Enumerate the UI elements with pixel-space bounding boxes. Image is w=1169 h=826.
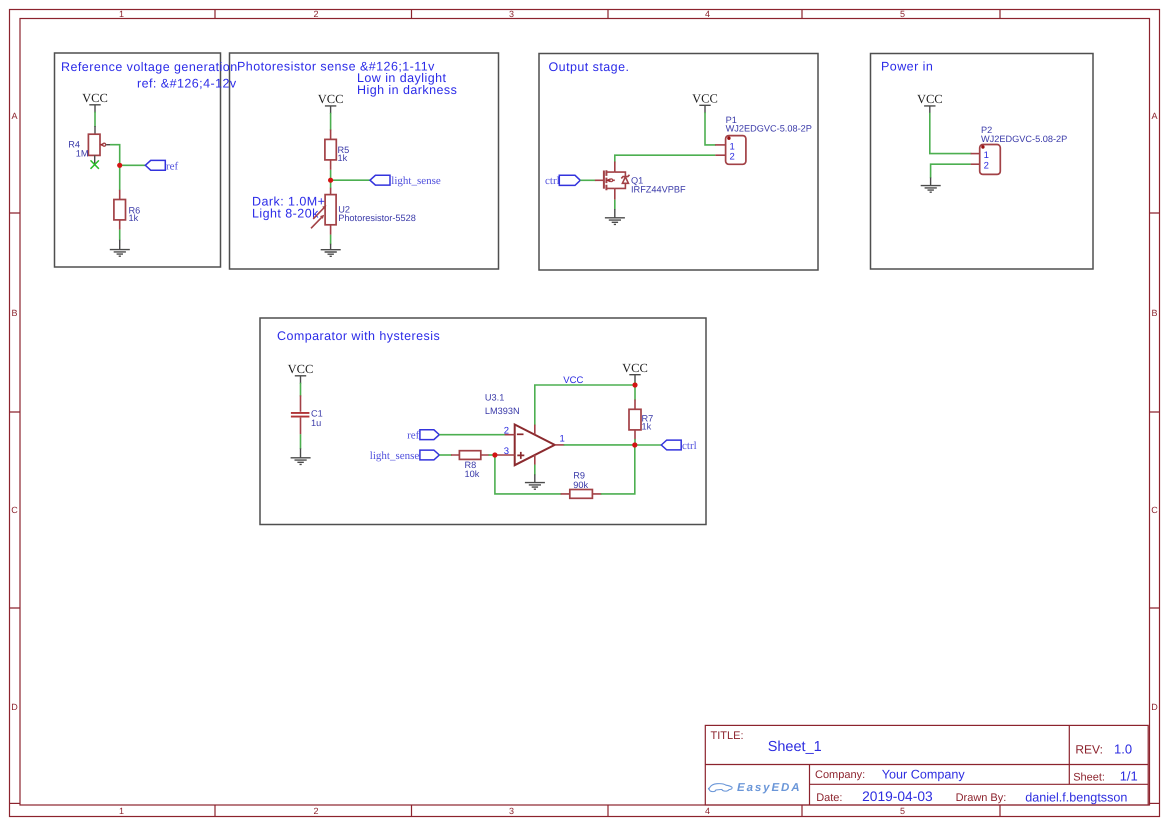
svg-text:Output stage.: Output stage.	[549, 60, 630, 74]
resistor R5	[325, 130, 336, 170]
svg-text:2: 2	[984, 161, 989, 172]
svg-text:3: 3	[504, 446, 509, 457]
wire VCC junction to R7	[634, 385, 636, 400]
power flag VCC box3	[692, 91, 718, 113]
svg-text:High in darkness: High in darkness	[357, 83, 457, 97]
svg-text:A: A	[1151, 111, 1157, 121]
svg-text:Sheet_1: Sheet_1	[768, 739, 822, 755]
svg-text:2: 2	[313, 806, 318, 816]
wire VCC to C1	[300, 383, 302, 397]
wire VCC to R5	[330, 113, 332, 131]
wire P1 pin2 to Q1 drain	[615, 155, 715, 162]
svg-text:ref: ref	[166, 160, 179, 172]
wire VCC to R4	[94, 112, 96, 127]
svg-text:EasyEDA: EasyEDA	[737, 782, 801, 794]
section box Reference voltage generation	[55, 53, 221, 267]
svg-text:Light 8-20k: Light 8-20k	[252, 206, 319, 220]
wire VCC net to op-amp power	[535, 385, 635, 425]
ground box4	[921, 178, 941, 193]
svg-text:ref: &#126;4-12v: ref: &#126;4-12v	[137, 77, 237, 91]
power flag VCC box2	[318, 92, 344, 114]
ruler row ticks left	[10, 213, 21, 608]
wire ref to op-amp pin2	[439, 434, 505, 436]
wire P2 pin2 to ground	[931, 164, 971, 178]
svg-text:TITLE:: TITLE:	[711, 730, 744, 742]
wire ctrl to Q1 gate	[580, 179, 595, 181]
svg-text:VCC: VCC	[692, 91, 718, 105]
net port ref box5	[407, 430, 439, 442]
svg-text:ctrl: ctrl	[545, 175, 560, 187]
resistor R6	[114, 190, 126, 230]
wire R5 to junction	[330, 170, 332, 180]
power flag VCC box5 right	[622, 361, 648, 383]
junction node light_sense	[328, 178, 333, 183]
svg-text:1/1: 1/1	[1120, 768, 1138, 783]
connector P2	[980, 145, 1001, 175]
svg-text:LM393N: LM393N	[485, 406, 520, 416]
section box Power in	[871, 54, 1094, 270]
svg-text:C: C	[1151, 505, 1158, 515]
pin P2-1	[971, 153, 980, 155]
junction node ref divider	[117, 163, 122, 168]
svg-text:C: C	[11, 505, 18, 515]
ground box1	[110, 240, 130, 256]
junction node op-amp pin3	[492, 452, 497, 457]
svg-text:1: 1	[984, 150, 989, 161]
ruler row ticks right	[1150, 213, 1160, 608]
section box Photoresistor sense	[230, 53, 499, 269]
svg-text:Company:: Company:	[815, 769, 865, 781]
svg-text:ctrl: ctrl	[682, 440, 697, 452]
EasyEDA logo	[708, 782, 801, 794]
wire R9 to output node	[601, 445, 635, 494]
pin R4 top	[94, 126, 96, 134]
potentiometer R4	[88, 134, 110, 155]
svg-text:B: B	[11, 308, 17, 318]
wire junction to ref port	[120, 164, 146, 166]
wire U2 to ground	[330, 235, 332, 245]
svg-text:3: 3	[509, 9, 514, 19]
resistor R9	[561, 490, 602, 499]
svg-text:4: 4	[705, 9, 710, 19]
svg-text:VCC: VCC	[288, 362, 314, 376]
resistor R7	[629, 400, 641, 440]
photoresistor U2	[311, 188, 336, 235]
ground box2	[321, 244, 341, 256]
svg-text:A: A	[11, 111, 17, 121]
svg-text:D: D	[11, 702, 18, 712]
junction node VCC net	[632, 382, 637, 387]
pin op-amp V-	[534, 455, 536, 465]
ruler band end notch bottom-right	[1150, 802, 1160, 804]
svg-text:VCC: VCC	[563, 375, 583, 386]
title block row divider 2	[810, 783, 1149, 785]
svg-text:1M: 1M	[76, 149, 89, 159]
svg-text:light_sense: light_sense	[391, 175, 441, 187]
ruler column ticks bottom	[215, 805, 1000, 817]
power flag VCC box5 left	[288, 362, 314, 384]
svg-text:1k: 1k	[642, 422, 652, 432]
pin op-amp 2	[505, 434, 515, 436]
net port light_sense	[370, 175, 441, 187]
junction node output	[632, 442, 637, 447]
svg-text:Date:: Date:	[816, 792, 842, 804]
svg-text:light_sense: light_sense	[370, 450, 420, 462]
wire output to junction	[564, 444, 635, 446]
title block rev column divider	[1068, 725, 1070, 784]
title block row divider 1	[705, 764, 1148, 766]
svg-text:U3.1: U3.1	[485, 392, 504, 402]
svg-text:VCC: VCC	[82, 91, 108, 105]
wire R7 to output junction	[634, 439, 636, 445]
svg-text:1: 1	[560, 433, 565, 444]
svg-text:WJ2EDGVC-5.08-2P: WJ2EDGVC-5.08-2P	[981, 134, 1067, 144]
svg-text:5: 5	[900, 9, 905, 19]
svg-text:10k: 10k	[465, 469, 480, 479]
svg-text:5: 5	[900, 806, 905, 816]
svg-text:2019-04-03: 2019-04-03	[862, 789, 933, 804]
wire C1 to ground	[300, 434, 302, 449]
net port ctrl box3	[545, 175, 580, 187]
svg-text:VCC: VCC	[917, 92, 943, 106]
wire VCC to P2 pin1	[930, 113, 972, 154]
wire junction to U2	[330, 180, 332, 188]
no-connect X on R4 bottom	[91, 160, 99, 168]
pin P2-2	[971, 163, 980, 165]
net port light_sense box5	[370, 450, 440, 462]
transistor Q1	[595, 162, 630, 200]
wire VCC down to junction	[634, 382, 636, 385]
wire op-amp to ground	[534, 465, 536, 476]
svg-text:1.0: 1.0	[1114, 741, 1132, 756]
svg-text:Sheet:: Sheet:	[1073, 771, 1105, 783]
svg-text:2: 2	[730, 152, 735, 163]
svg-text:1k: 1k	[129, 213, 139, 223]
svg-text:IRFZ44VPBF: IRFZ44VPBF	[631, 185, 686, 195]
title block logo cell divider	[809, 765, 811, 806]
svg-text:1u: 1u	[311, 418, 321, 428]
svg-text:2: 2	[504, 425, 509, 436]
svg-text:D: D	[1151, 702, 1158, 712]
resistor R8	[451, 451, 490, 460]
svg-text:WJ2EDGVC-5.08-2P: WJ2EDGVC-5.08-2P	[726, 124, 812, 134]
svg-text:Your Company: Your Company	[882, 767, 966, 781]
pin P1-1	[715, 144, 725, 146]
svg-text:1: 1	[119, 9, 124, 19]
section box Comparator with hysteresis	[260, 318, 706, 525]
svg-text:Photoresistor-5528: Photoresistor-5528	[338, 213, 416, 223]
svg-text:VCC: VCC	[622, 361, 648, 375]
ground box5 C1	[291, 448, 311, 464]
svg-text:Reference voltage generation: Reference voltage generation	[61, 60, 238, 74]
svg-text:Power in: Power in	[881, 60, 933, 74]
wire output junction to ctrl port	[635, 444, 662, 446]
svg-text:90k: 90k	[573, 480, 588, 490]
svg-text:ref: ref	[407, 430, 420, 442]
pin P1-2	[715, 154, 725, 156]
wire VCC to P1 pin1	[705, 112, 716, 145]
pin op-amp V+	[534, 425, 536, 435]
svg-text:2: 2	[313, 9, 318, 19]
svg-text:3: 3	[509, 806, 514, 816]
wire R4 wiper to junction	[110, 145, 120, 166]
wire junction to R6	[119, 165, 121, 190]
wire feedback down from junction	[495, 455, 562, 494]
wire R6 to ground	[119, 230, 121, 241]
ground box3	[605, 209, 625, 224]
pin op-amp 3	[497, 454, 515, 456]
wire Q1 source to ground	[614, 200, 616, 210]
op-amp U3.1	[515, 425, 555, 466]
svg-text:Drawn By:: Drawn By:	[956, 792, 1007, 804]
wire junction to light_sense port	[331, 179, 370, 181]
wire R8 to junction	[489, 454, 495, 456]
svg-text:REV:: REV:	[1075, 742, 1103, 756]
svg-text:daniel.f.bengtsson: daniel.f.bengtsson	[1025, 790, 1127, 804]
pin R4 bottom	[94, 155, 96, 163]
wire light_sense to R8	[439, 454, 452, 456]
net port ref	[145, 160, 178, 172]
ground box5 op-amp	[525, 474, 545, 489]
capacitor C1	[291, 395, 310, 434]
power flag VCC box1	[82, 91, 108, 113]
connector P1	[726, 136, 746, 165]
svg-text:VCC: VCC	[318, 92, 344, 106]
section box Output stage	[539, 54, 818, 271]
pin op-amp 1 output	[555, 444, 565, 446]
power flag VCC box4	[917, 92, 943, 114]
svg-text:1k: 1k	[338, 153, 348, 163]
title block outline	[705, 725, 1148, 805]
svg-text:1: 1	[119, 806, 124, 816]
svg-text:B: B	[1151, 308, 1157, 318]
ruler band end notch bottom-left	[10, 802, 21, 804]
ruler column ticks top	[215, 10, 1000, 19]
svg-text:4: 4	[705, 806, 710, 816]
svg-text:Comparator with hysteresis: Comparator with hysteresis	[277, 329, 440, 343]
net port ctrl box5	[661, 440, 696, 452]
